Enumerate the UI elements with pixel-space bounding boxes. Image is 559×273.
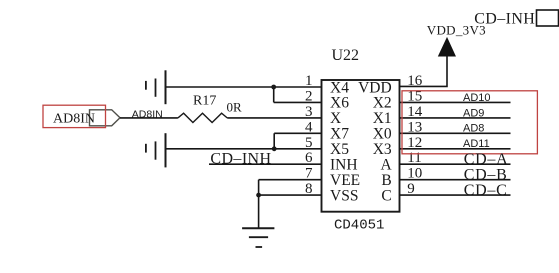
wire pin13 (400, 132, 511, 134)
wire pin2 (274, 101, 322, 103)
IC U22 CD4051 body (322, 80, 400, 212)
wire pin12 (400, 148, 511, 150)
svg-text:0R: 0R (227, 100, 243, 115)
wire down to ground (258, 180, 260, 229)
wire pin9 (400, 194, 511, 196)
svg-text:VSS: VSS (330, 187, 358, 204)
wire pin5 from ground to IC (166, 148, 322, 150)
svg-text:U22: U22 (332, 47, 360, 64)
top-right sheet entry box (537, 10, 559, 26)
svg-text:X0: X0 (373, 126, 392, 143)
svg-text:AD10: AD10 (463, 92, 491, 104)
resistor R17 zigzag (178, 113, 227, 122)
svg-text:CD4051: CD4051 (334, 217, 384, 233)
svg-text:R17: R17 (193, 94, 216, 109)
svg-text:A: A (380, 157, 392, 174)
wire pin8 (259, 194, 322, 196)
ground GND top-left (rotated) (146, 70, 166, 104)
junction dot pin5 (272, 146, 277, 151)
svg-text:AD9: AD9 (463, 107, 484, 119)
svg-text:X2: X2 (373, 95, 392, 112)
wire pin7 (259, 179, 322, 181)
svg-text:CD–INH: CD–INH (474, 10, 535, 27)
power symbol VDD_3V3 arrow (439, 38, 456, 56)
svg-text:CD–A: CD–A (464, 151, 509, 168)
svg-text:AD11: AD11 (463, 138, 490, 150)
wire pin4 (274, 132, 321, 134)
ground GND mid-left (rotated) (146, 133, 166, 167)
junction dot pin1 (271, 85, 276, 90)
wire pin11 (400, 163, 511, 165)
wire pin10 (400, 179, 511, 181)
svg-text:X6: X6 (330, 95, 349, 112)
wire resistor to pin3 (227, 117, 321, 119)
ground GND bottom (242, 228, 274, 247)
svg-text:AD8IN: AD8IN (53, 111, 95, 126)
wire pin14 (400, 117, 511, 119)
wire pin15 (400, 101, 511, 103)
svg-text:C: C (381, 187, 391, 204)
junction dot pin8 (256, 193, 261, 198)
wire port to resistor (120, 117, 178, 119)
red highlight box around AD1x nets (402, 91, 537, 154)
svg-text:X7: X7 (330, 126, 349, 143)
wire pin16 to power (400, 56, 448, 86)
port AD8IN (90, 110, 121, 126)
svg-text:INH: INH (330, 157, 358, 174)
svg-text:CD–C: CD–C (464, 182, 508, 199)
wire pin1 from ground to IC (166, 86, 322, 88)
wire pin6 (209, 163, 322, 165)
wire junction drop pin1 to pin2 (273, 87, 275, 102)
svg-text:AD8: AD8 (463, 123, 484, 135)
wire junction rise pin5 to pin4 (273, 133, 275, 149)
red highlight box around AD8IN (43, 105, 106, 127)
